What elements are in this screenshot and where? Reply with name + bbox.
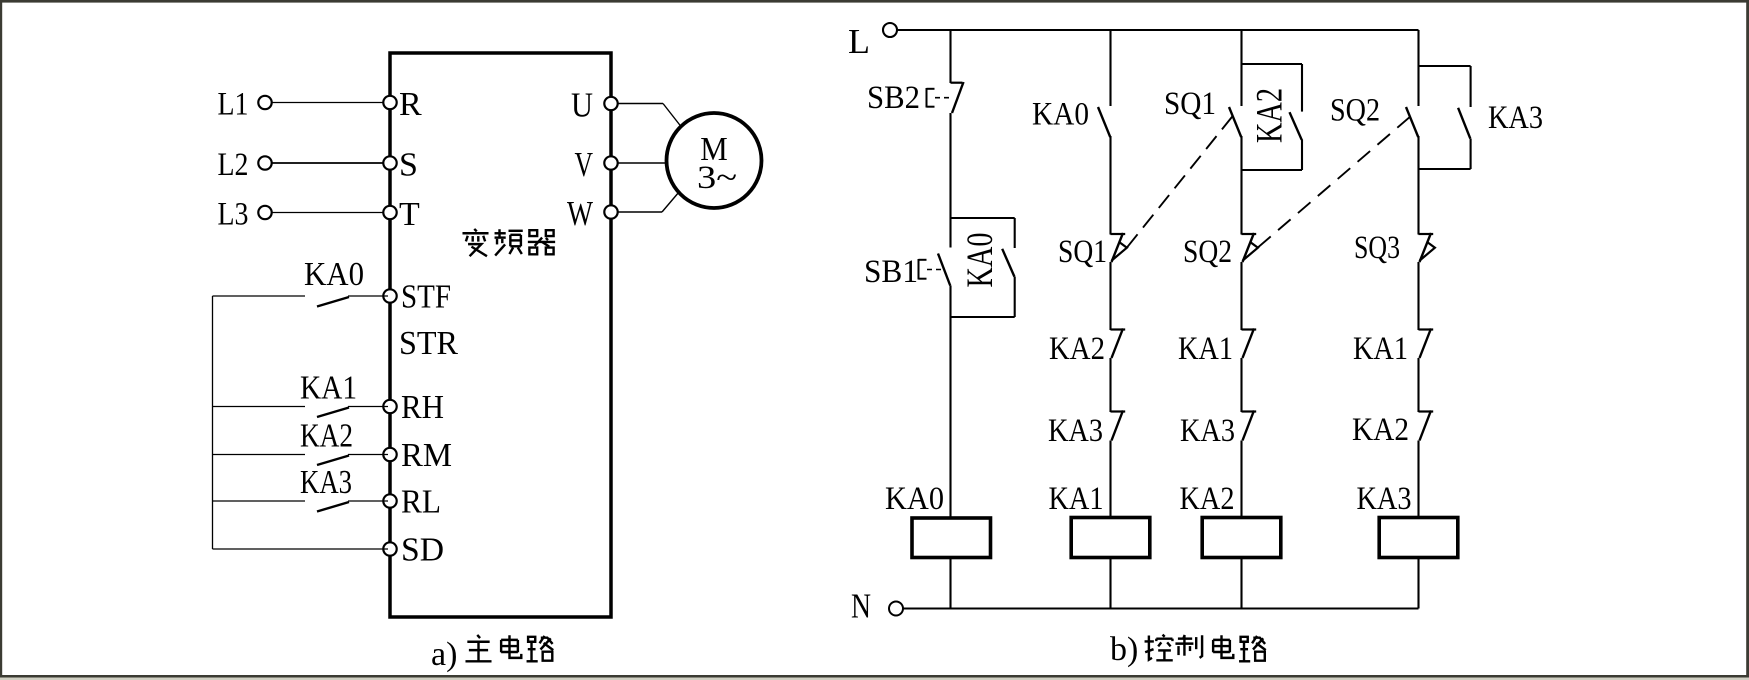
svg-text:b): b) <box>1110 631 1138 668</box>
svg-text:3~: 3~ <box>697 160 737 196</box>
svg-text:SQ2: SQ2 <box>1330 93 1380 129</box>
svg-text:STR: STR <box>399 325 458 362</box>
svg-text:KA0: KA0 <box>1032 97 1089 133</box>
svg-text:RH: RH <box>401 389 444 426</box>
svg-text:KA3: KA3 <box>300 464 352 501</box>
svg-text:L3: L3 <box>218 197 249 233</box>
svg-text:SQ1: SQ1 <box>1058 234 1107 270</box>
svg-text:KA2: KA2 <box>1250 88 1291 143</box>
svg-text:SD: SD <box>401 532 444 569</box>
svg-text:N: N <box>851 587 871 626</box>
svg-text:L: L <box>848 22 870 61</box>
svg-text:KA2: KA2 <box>300 418 353 455</box>
svg-text:KA0: KA0 <box>304 256 364 293</box>
svg-text:L1: L1 <box>218 87 249 123</box>
svg-text:STF: STF <box>401 279 451 316</box>
svg-text:W: W <box>567 194 593 233</box>
svg-text:T: T <box>399 196 420 233</box>
svg-text:RM: RM <box>401 437 452 474</box>
svg-text:RL: RL <box>401 484 441 521</box>
svg-text:KA3: KA3 <box>1180 413 1235 449</box>
svg-text:KA1: KA1 <box>1353 331 1408 367</box>
svg-text:KA2: KA2 <box>1049 331 1105 367</box>
svg-text:KA2: KA2 <box>1352 412 1409 448</box>
svg-text:L2: L2 <box>218 147 249 183</box>
svg-text:a): a) <box>431 636 457 673</box>
svg-text:SB1: SB1 <box>864 254 918 290</box>
svg-text:V: V <box>575 145 594 184</box>
svg-text:R: R <box>399 86 422 123</box>
svg-text:KA2: KA2 <box>1180 481 1235 517</box>
svg-text:S: S <box>399 147 418 184</box>
svg-text:SQ1: SQ1 <box>1164 86 1216 122</box>
svg-text:KA3: KA3 <box>1488 100 1543 136</box>
svg-text:SB2: SB2 <box>867 80 920 116</box>
svg-text:U: U <box>571 86 593 125</box>
svg-text:KA1: KA1 <box>300 370 357 407</box>
svg-text:KA3: KA3 <box>1357 481 1412 517</box>
svg-text:KA3: KA3 <box>1048 413 1103 449</box>
svg-text:SQ3: SQ3 <box>1354 230 1400 266</box>
svg-text:KA0: KA0 <box>885 481 944 517</box>
svg-text:KA1: KA1 <box>1049 481 1104 517</box>
svg-text:KA0: KA0 <box>960 233 1001 288</box>
svg-text:SQ2: SQ2 <box>1183 234 1232 270</box>
svg-text:KA1: KA1 <box>1178 331 1233 367</box>
